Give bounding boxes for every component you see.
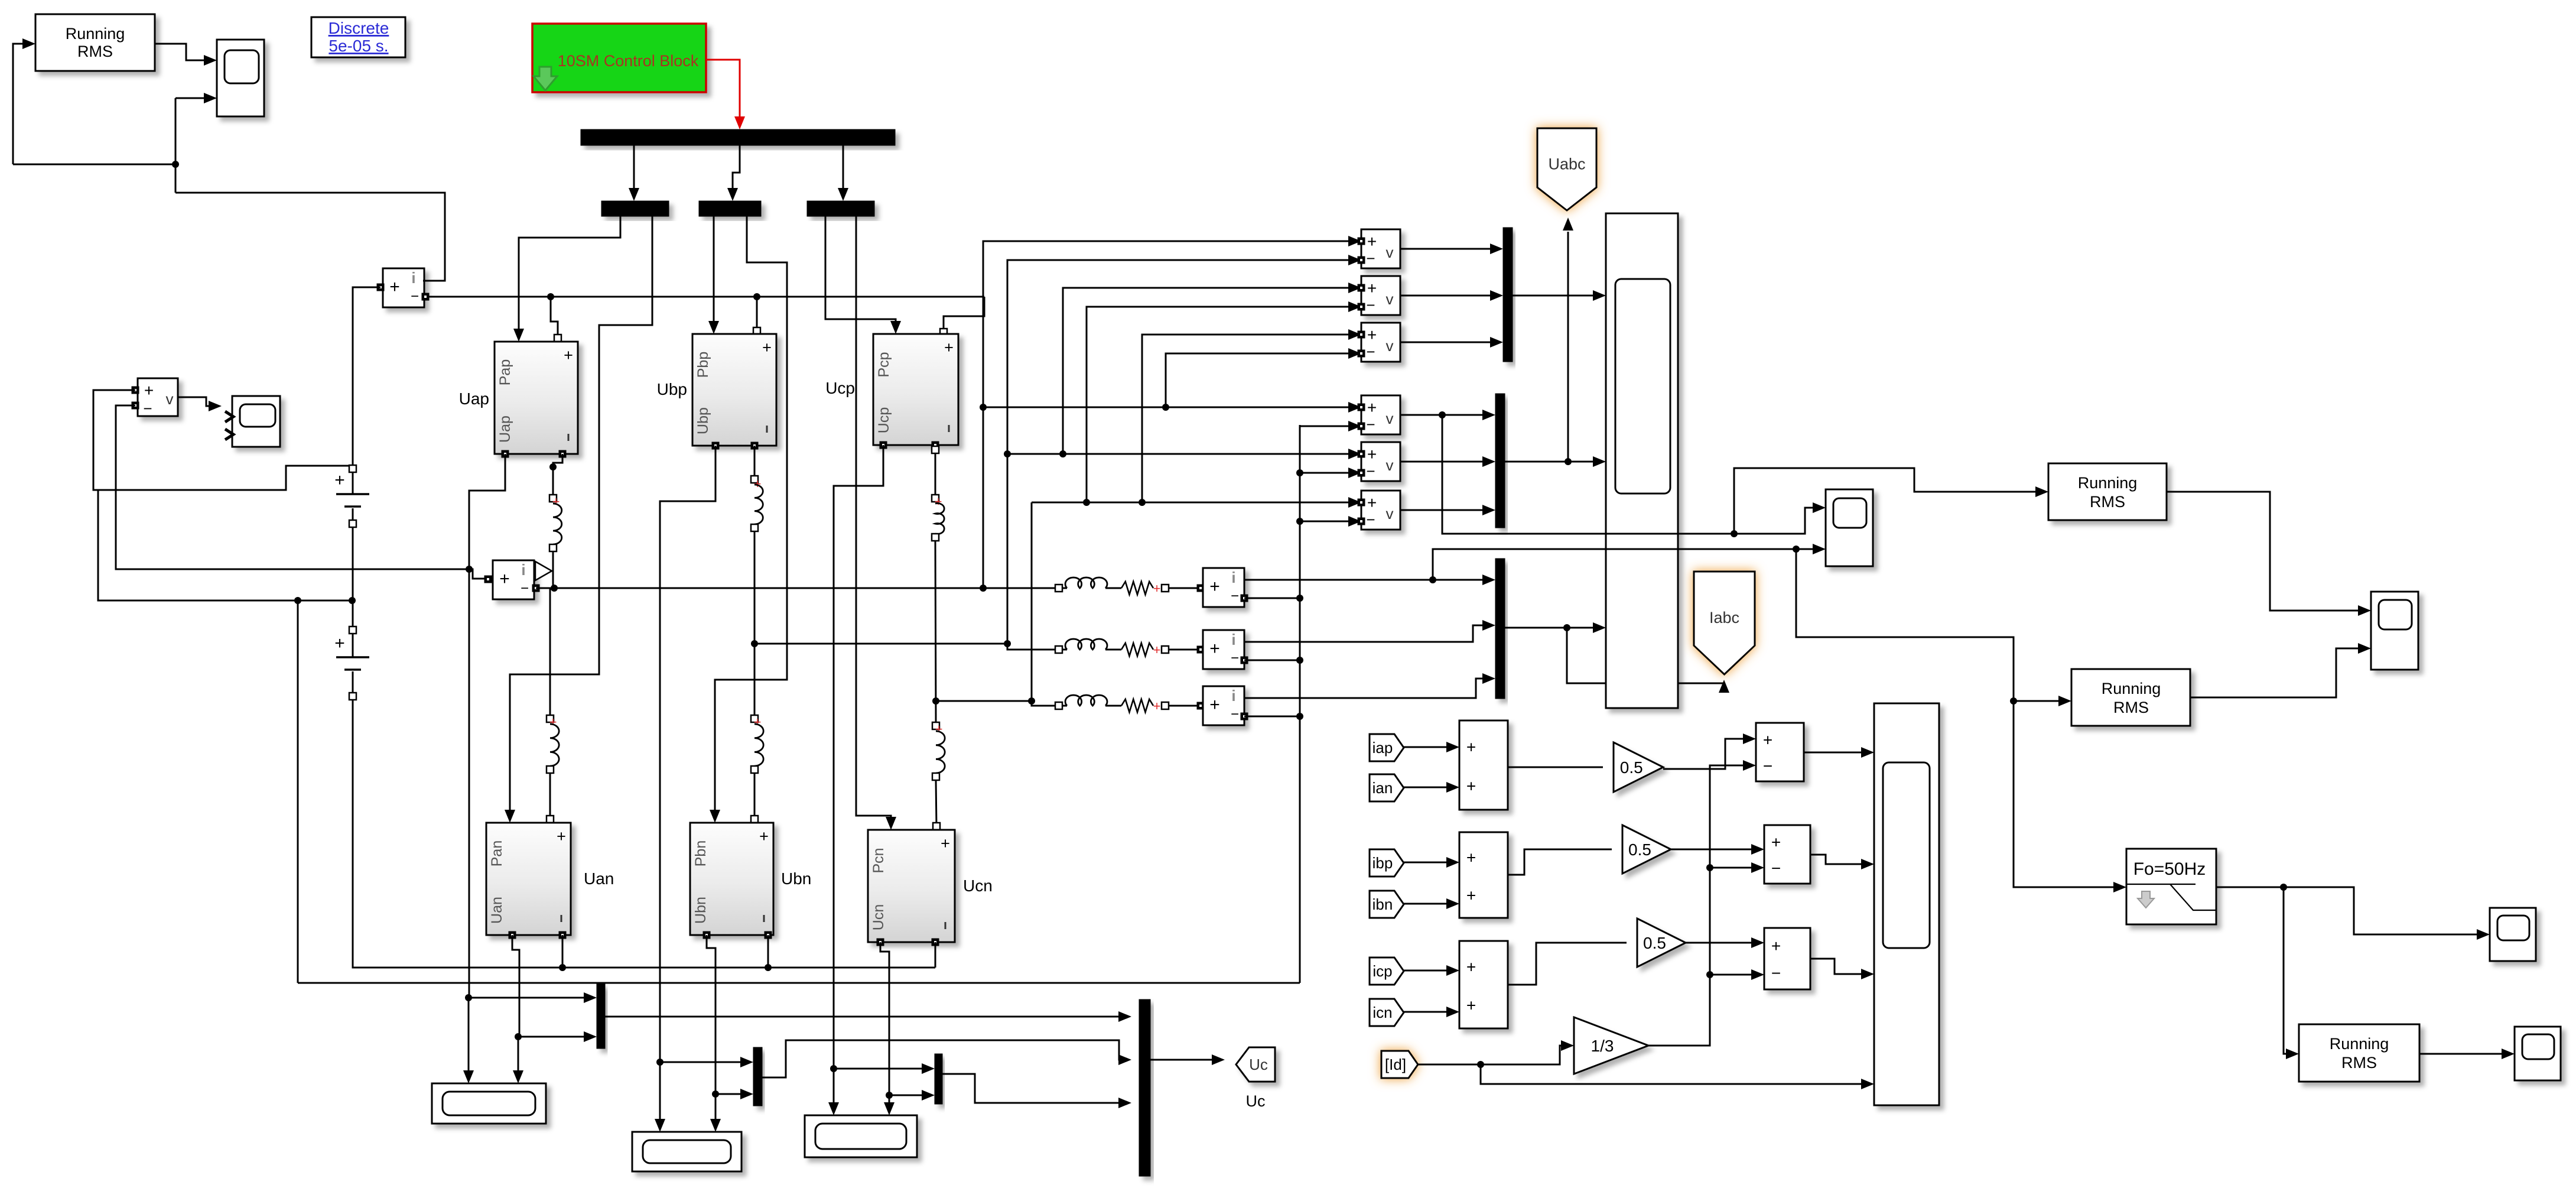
svg-text:Ucp: Ucp	[825, 379, 855, 397]
svg-text:+: +	[549, 715, 557, 729]
svg-text:Uan: Uan	[584, 869, 614, 888]
svg-text:v: v	[1386, 290, 1394, 308]
svg-text:iap: iap	[1372, 739, 1393, 757]
svg-text:+: +	[762, 339, 772, 356]
svg-text:+: +	[557, 827, 566, 845]
svg-text:−: −	[143, 400, 152, 417]
svg-text:−: −	[1231, 706, 1239, 722]
svg-text:RMS: RMS	[2090, 493, 2125, 511]
svg-text:ibp: ibp	[1372, 854, 1393, 872]
svg-text:−: −	[1366, 462, 1375, 480]
svg-text:+: +	[1466, 777, 1476, 796]
svg-text:v: v	[1386, 456, 1394, 474]
svg-text:v: v	[166, 390, 174, 408]
svg-text:+: +	[935, 494, 942, 509]
svg-text:−: −	[1771, 859, 1781, 877]
svg-text:Pcn: Pcn	[870, 848, 887, 873]
svg-text:−: −	[411, 288, 419, 304]
svg-text:+: +	[1367, 445, 1377, 463]
svg-text:+: +	[754, 715, 762, 729]
svg-text:+: +	[1466, 738, 1476, 756]
svg-text:icp: icp	[1372, 962, 1392, 980]
svg-text:−: −	[1366, 296, 1375, 314]
svg-text:+: +	[1367, 279, 1377, 297]
svg-text:ian: ian	[1372, 779, 1393, 797]
svg-text:+: +	[1209, 639, 1220, 658]
svg-text:+: +	[499, 569, 510, 589]
svg-text:+: +	[334, 470, 345, 490]
svg-text:+: +	[1771, 937, 1781, 955]
svg-text:Discrete: Discrete	[328, 19, 389, 37]
svg-text:+: +	[1209, 577, 1220, 596]
svg-text:i: i	[1231, 687, 1235, 705]
svg-text:5e-05 s.: 5e-05 s.	[328, 37, 388, 55]
svg-text:Running: Running	[2330, 1035, 2389, 1053]
svg-text:i: i	[521, 561, 525, 579]
svg-text:v: v	[1386, 337, 1394, 355]
svg-text:Uan: Uan	[489, 897, 505, 924]
svg-text:Uc: Uc	[1246, 1092, 1266, 1110]
svg-text:RMS: RMS	[2341, 1054, 2377, 1072]
svg-text:Ubp: Ubp	[695, 407, 711, 434]
svg-text:Ucn: Ucn	[963, 877, 993, 895]
svg-text:+: +	[1466, 886, 1476, 904]
svg-text:−: −	[1231, 588, 1239, 604]
svg-text:+: +	[334, 634, 345, 653]
svg-text:RMS: RMS	[2113, 699, 2149, 716]
svg-text:[Id]: [Id]	[1385, 1056, 1406, 1073]
svg-text:+: +	[944, 339, 954, 356]
svg-text:+: +	[1153, 642, 1161, 657]
svg-text:Ubn: Ubn	[692, 897, 709, 924]
svg-text:Ubp: Ubp	[657, 380, 687, 398]
svg-text:0.5: 0.5	[1620, 758, 1643, 777]
svg-text:Ucp: Ucp	[876, 407, 892, 433]
svg-text:+: +	[1771, 833, 1781, 852]
svg-text:Fo=50Hz: Fo=50Hz	[2133, 859, 2206, 879]
svg-text:Pbp: Pbp	[695, 352, 711, 378]
svg-text:−: −	[1366, 343, 1375, 361]
svg-text:i: i	[1231, 569, 1235, 586]
svg-text:Running: Running	[2078, 474, 2138, 492]
svg-text:ibn: ibn	[1372, 895, 1393, 913]
svg-text:RMS: RMS	[77, 43, 113, 60]
svg-text:+: +	[389, 277, 400, 297]
svg-text:−: −	[1366, 249, 1375, 267]
svg-text:+: +	[144, 381, 154, 400]
svg-text:+: +	[1367, 494, 1377, 512]
svg-text:i: i	[1231, 631, 1235, 648]
svg-text:Pan: Pan	[489, 840, 505, 866]
svg-text:1/3: 1/3	[1591, 1037, 1614, 1055]
svg-text:+: +	[1367, 232, 1377, 251]
svg-text:v: v	[1386, 410, 1394, 427]
svg-text:Uap: Uap	[459, 389, 489, 408]
svg-text:10SM Control Block: 10SM Control Block	[558, 52, 699, 70]
svg-text:Running: Running	[66, 25, 125, 43]
svg-text:−: −	[1771, 964, 1781, 982]
svg-text:+: +	[552, 494, 560, 509]
svg-text:Uap: Uap	[497, 416, 513, 443]
svg-text:0.5: 0.5	[1643, 934, 1666, 952]
svg-text:+: +	[1153, 699, 1161, 713]
svg-text:+: +	[1466, 849, 1476, 867]
svg-text:v: v	[1386, 244, 1394, 261]
svg-text:Uc: Uc	[1249, 1056, 1268, 1073]
svg-text:+: +	[1466, 997, 1476, 1015]
svg-text:Uabc: Uabc	[1548, 155, 1585, 173]
svg-text:0.5: 0.5	[1628, 840, 1651, 859]
svg-text:+: +	[1209, 695, 1220, 715]
svg-text:+: +	[1466, 957, 1476, 976]
svg-text:v: v	[1386, 505, 1394, 522]
svg-text:+: +	[1367, 398, 1377, 417]
svg-text:Running: Running	[2102, 680, 2161, 697]
svg-text:Ucn: Ucn	[870, 904, 887, 930]
svg-text:+: +	[1153, 581, 1161, 596]
svg-text:Ubn: Ubn	[781, 869, 811, 888]
svg-text:icn: icn	[1372, 1004, 1392, 1021]
svg-text:Pbn: Pbn	[692, 840, 709, 866]
svg-text:Iabc: Iabc	[1709, 609, 1739, 627]
svg-text:i: i	[411, 269, 415, 287]
svg-text:−: −	[1366, 511, 1375, 528]
svg-text:+: +	[941, 835, 950, 852]
svg-text:+: +	[935, 722, 943, 736]
svg-text:−: −	[1366, 416, 1375, 433]
svg-text:−: −	[1231, 650, 1239, 666]
svg-text:−: −	[521, 580, 529, 596]
svg-text:+: +	[1367, 326, 1377, 344]
svg-text:+: +	[1763, 731, 1772, 749]
svg-text:−: −	[1763, 757, 1772, 775]
svg-text:Pap: Pap	[497, 359, 513, 385]
svg-text:+: +	[759, 827, 769, 845]
svg-text:+: +	[564, 346, 573, 364]
svg-text:Pcp: Pcp	[876, 352, 892, 377]
svg-text:+: +	[754, 476, 762, 491]
